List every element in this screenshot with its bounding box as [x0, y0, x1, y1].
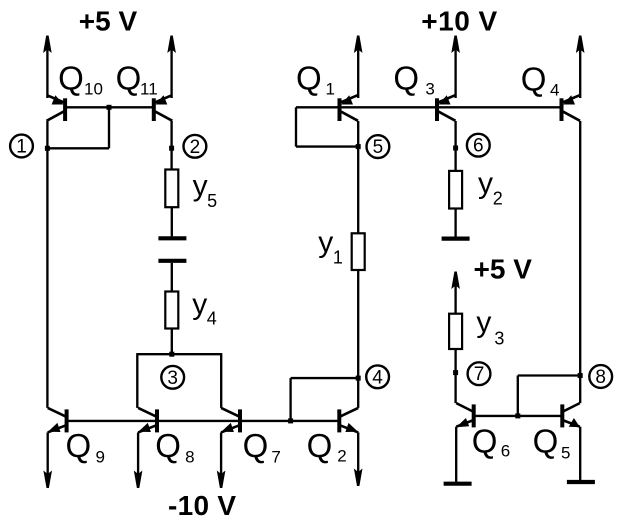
ground — [442, 237, 470, 241]
transistor Q10 — [63, 98, 67, 121]
svg-text:1: 1 — [333, 248, 343, 268]
node 4 junction — [356, 376, 361, 381]
resistor y4 — [165, 292, 178, 329]
transistor Q3 — [435, 98, 439, 121]
wire — [46, 48, 48, 99]
wire Q4 collector to Q5 collector — [579, 121, 581, 403]
svg-text:1: 1 — [326, 80, 335, 99]
node 4 — [366, 365, 389, 388]
svg-text:7: 7 — [474, 364, 485, 385]
transistor Q8 — [155, 409, 159, 432]
wire base Q10-Q11 — [65, 106, 154, 108]
svg-text:Q: Q — [533, 423, 559, 460]
wire capacitor to y4 — [171, 263, 173, 292]
svg-text:Q: Q — [472, 423, 498, 460]
wire base rail Q6 Q5 — [474, 415, 563, 417]
wire — [454, 48, 456, 99]
wire Q5 emitter to ground — [579, 427, 581, 482]
svg-text:6: 6 — [473, 136, 484, 157]
node 2 — [184, 135, 207, 158]
wire node3 to Q8 collector — [136, 353, 138, 408]
junction base-collector tie — [107, 105, 112, 110]
svg-text:4: 4 — [372, 367, 383, 388]
svg-text:+5 V: +5 V — [474, 254, 533, 285]
transistor Q5 — [560, 404, 564, 427]
wire emitter to -10V — [137, 432, 139, 481]
transistor Q7 — [238, 409, 242, 432]
ground — [444, 482, 472, 486]
junction node4 tie to base rail — [288, 418, 293, 423]
svg-text:Q: Q — [155, 427, 181, 464]
wire +5V arrow — [454, 282, 456, 314]
junction node8 tie to base rail — [515, 413, 520, 418]
transistor Q2 — [337, 409, 341, 432]
node 3 — [161, 366, 184, 389]
wire y1 to node 4 — [357, 270, 359, 408]
svg-text:10: 10 — [84, 80, 103, 99]
svg-text:-10 V: -10 V — [168, 490, 236, 521]
svg-text:3: 3 — [494, 329, 504, 349]
wire Q11 collector to y5 — [170, 121, 172, 170]
svg-text:Q: Q — [521, 61, 547, 98]
node 8 — [589, 365, 612, 388]
svg-text:7: 7 — [271, 448, 280, 467]
svg-text:Q: Q — [116, 60, 142, 97]
svg-text:3: 3 — [167, 368, 178, 389]
transistor Q1 — [338, 98, 342, 121]
transistor Q6 — [472, 404, 476, 427]
svg-text:Q: Q — [243, 427, 269, 464]
capacitor C1 — [158, 236, 186, 240]
wire y2 to ground — [454, 209, 456, 238]
wire — [579, 48, 581, 99]
wire y3 to node 7 — [454, 349, 456, 403]
wire Q10 collector to Q9 — [46, 121, 48, 408]
svg-text:y: y — [318, 226, 333, 259]
svg-text:8: 8 — [595, 367, 606, 388]
svg-text:5: 5 — [561, 444, 570, 463]
svg-text:1: 1 — [16, 137, 27, 158]
svg-text:+10 V: +10 V — [421, 6, 497, 37]
wire y5 to capacitor — [171, 207, 173, 236]
svg-text:9: 9 — [96, 448, 105, 467]
wire node3 to Q7 collector — [220, 353, 222, 408]
transistor Q9 — [65, 409, 69, 432]
ground — [567, 480, 595, 484]
svg-text:2: 2 — [493, 188, 503, 208]
node 7 junction — [453, 370, 458, 375]
node 1 — [10, 135, 33, 158]
wire Q1 base to node 5 — [295, 107, 297, 146]
svg-text:2: 2 — [337, 447, 346, 466]
resistor y1 — [352, 233, 365, 270]
wire — [170, 48, 172, 99]
node 3 junction — [169, 352, 174, 357]
svg-text:3: 3 — [425, 80, 434, 99]
svg-text:8: 8 — [185, 448, 194, 467]
wire Q1 collector to y1 to node 4 — [357, 121, 359, 233]
svg-text:5: 5 — [207, 191, 217, 211]
wire y4 to node 3 — [171, 329, 173, 355]
svg-text:Q: Q — [58, 60, 84, 97]
node 5 — [367, 135, 390, 158]
svg-text:y: y — [193, 169, 208, 202]
wire base rail Q1 Q3 Q4 — [296, 106, 562, 108]
svg-text:Q: Q — [296, 60, 322, 97]
resistor y5 — [165, 170, 178, 208]
svg-text:y: y — [478, 167, 493, 200]
wire base tie down to node 1 — [108, 107, 110, 148]
node 7 — [468, 362, 491, 385]
svg-text:4: 4 — [550, 81, 559, 100]
wire node 3 rail — [137, 353, 221, 355]
node 5 junction — [356, 144, 361, 149]
svg-text:y: y — [192, 288, 207, 321]
resistor y3 — [449, 314, 462, 349]
transistor Q11 — [152, 98, 156, 121]
node 6 junction — [453, 146, 458, 151]
wire node 8 to Q5 Q6 base — [518, 374, 580, 376]
wire Q3 collector to y2 — [454, 121, 456, 171]
wire emitter to -10V — [47, 432, 49, 481]
wire Q2 emitter to -10V — [357, 432, 359, 479]
svg-text:Q: Q — [307, 427, 333, 464]
svg-text:2: 2 — [190, 137, 201, 158]
node 6 — [467, 134, 490, 157]
wire — [357, 48, 359, 99]
svg-text:y: y — [476, 306, 491, 339]
svg-text:6: 6 — [501, 442, 510, 461]
svg-text:Q: Q — [393, 60, 419, 97]
transistor Q4 — [560, 98, 564, 121]
svg-text:Q: Q — [66, 427, 92, 464]
svg-text:+5 V: +5 V — [79, 6, 138, 37]
svg-text:5: 5 — [373, 137, 384, 158]
wire base rail Q9 Q8 Q7 Q2 — [67, 420, 340, 422]
wire emitter to -10V — [220, 432, 222, 481]
node 2 junction — [169, 146, 174, 151]
resistor y2 — [449, 171, 462, 209]
node 8 junction — [578, 373, 583, 378]
wire Q6 emitter to ground — [455, 427, 457, 484]
svg-text:4: 4 — [207, 309, 217, 329]
wire node 4 to Q2 base — [291, 377, 359, 379]
node 1 junction — [45, 146, 50, 151]
svg-text:11: 11 — [140, 80, 158, 99]
